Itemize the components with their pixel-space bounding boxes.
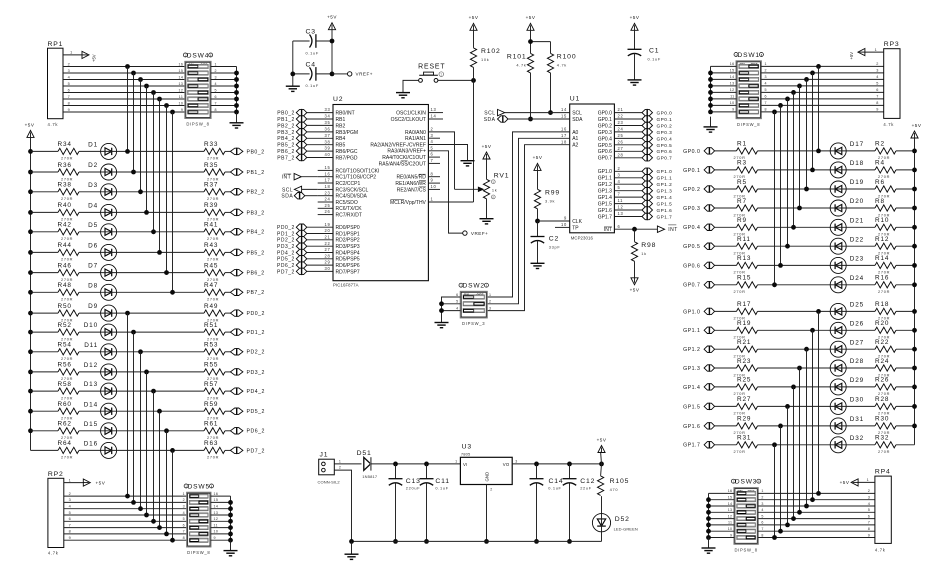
- svg-text:6: 6: [456, 293, 458, 297]
- svg-text:16: 16: [214, 492, 219, 496]
- svg-text:1: 1: [183, 492, 185, 496]
- U2 pin 18 RC3/SCK/SCL stub: [318, 184, 369, 193]
- svg-text:11: 11: [618, 198, 624, 203]
- svg-text:3: 3: [761, 502, 763, 506]
- wire R25 to D29: [758, 386, 831, 388]
- svg-text:7: 7: [761, 527, 763, 531]
- svg-text:PD5_2: PD5_2: [277, 257, 295, 263]
- wire PB4_2 to U2 pin 37: [307, 133, 333, 138]
- junction node top-right bus 7: [778, 103, 783, 108]
- junction C12 top: [567, 462, 572, 467]
- junction node GP0.5 bus: [785, 244, 790, 249]
- wire R64 to D16: [79, 449, 101, 451]
- svg-text:4: 4: [431, 139, 434, 144]
- svg-text:GP0.5: GP0.5: [683, 244, 700, 250]
- svg-text:PB4_2: PB4_2: [277, 136, 295, 142]
- svg-text:13: 13: [730, 82, 735, 86]
- wire D13 to R57: [117, 390, 204, 392]
- wire PB5_2 to U2 pin 38: [307, 139, 333, 144]
- svg-text:D15: D15: [84, 421, 98, 428]
- svg-text:R41: R41: [204, 222, 218, 229]
- svg-text:270R: 270R: [878, 449, 890, 454]
- junction +5V right rail at D28: [912, 366, 917, 371]
- wire R58 to D13: [79, 390, 101, 392]
- wire vertical bus left 1: [127, 67, 129, 152]
- svg-text:PD3_2: PD3_2: [277, 244, 295, 250]
- wire J1 pin 1 to D51: [334, 460, 361, 464]
- ground under C2: [531, 263, 545, 268]
- wire +5V rail to R64: [31, 449, 59, 451]
- power +5V above RV1: [482, 144, 492, 159]
- svg-text:3: 3: [431, 133, 434, 138]
- wire D3 to R37: [117, 191, 204, 193]
- wire D1 to R33: [117, 150, 204, 152]
- svg-text:8: 8: [69, 530, 72, 534]
- wire vertical bus lower-left 5: [153, 391, 155, 521]
- svg-text:D17: D17: [850, 141, 864, 148]
- svg-text:PB3_2: PB3_2: [247, 210, 265, 216]
- wire RP1 pin 3 to DSW4 pin 15: [63, 69, 185, 73]
- wire RP2 pin 8 to DSW5 pin 7: [64, 530, 187, 534]
- junction R100/SCL: [548, 110, 553, 115]
- junction DSW5 bus 1: [228, 500, 233, 505]
- svg-text:GP0.7: GP0.7: [683, 283, 700, 289]
- resistor R29 270R: [734, 416, 758, 436]
- wire DSW4 pin 2 to ground bus: [211, 69, 237, 73]
- junction DSW3 bus 2: [706, 504, 711, 509]
- svg-text:14: 14: [431, 114, 437, 119]
- svg-text:13: 13: [431, 107, 437, 112]
- svg-text:PD4_2: PD4_2: [277, 250, 295, 256]
- junction DSW3 bus 3: [706, 510, 711, 515]
- svg-text:23: 23: [618, 120, 624, 125]
- DSW2 right pin 3 number: [489, 306, 491, 310]
- wire R32 to +5V rail: [896, 444, 915, 446]
- svg-text:270R: 270R: [61, 257, 73, 262]
- svg-text:8: 8: [215, 108, 217, 112]
- wire terminal GP1.2 to R21: [715, 348, 737, 350]
- svg-text:8: 8: [761, 533, 763, 537]
- wire R9 to D21: [758, 226, 831, 228]
- wire R63 to terminal PD7_2: [225, 449, 230, 451]
- svg-text:R10: R10: [875, 217, 889, 224]
- svg-text:DSW1: DSW1: [737, 52, 759, 59]
- svg-text:GP1.4: GP1.4: [683, 385, 700, 391]
- resistor R49 270R: [204, 303, 225, 323]
- junction node GP0.0 bus: [816, 149, 821, 154]
- svg-text:10: 10: [431, 184, 437, 189]
- wire R2 to +5V rail: [896, 150, 915, 152]
- svg-text:PD6_2: PD6_2: [247, 429, 265, 435]
- svg-text:23: 23: [325, 190, 331, 195]
- junction +5V right rail at D22: [912, 244, 917, 249]
- U2 pin name RA2/AN2/VREF-/CVREF: [370, 142, 426, 148]
- U2 pin 10 RE2/AN7/CS stub: [397, 184, 440, 193]
- terminal GP0.5: [683, 243, 714, 251]
- svg-text:RD0/PSP0: RD0/PSP0: [336, 225, 360, 231]
- svg-text:18: 18: [325, 184, 331, 189]
- junction node PB5_2 bus: [157, 250, 162, 255]
- svg-text:D16: D16: [84, 441, 98, 448]
- U2 pin 5 number: [431, 145, 434, 150]
- junction node GP0.7 bus: [772, 282, 777, 287]
- U2 pin 15 RC0/T1OSO/T1CKI stub: [318, 165, 380, 174]
- svg-text:5: 5: [618, 185, 621, 190]
- junction DSW1 bus 1: [708, 71, 713, 76]
- junction node PD1_2 bus: [131, 330, 136, 335]
- svg-text:7: 7: [868, 521, 871, 525]
- svg-text:DIPSW_3: DIPSW_3: [462, 321, 485, 326]
- wire PB0_2 to U2 pin 33: [307, 107, 333, 112]
- svg-text:GP0.5: GP0.5: [657, 143, 673, 148]
- terminal GP0.4 at U1: [642, 135, 672, 142]
- svg-text:R6: R6: [875, 179, 885, 186]
- diode D51 1N5817: [357, 450, 378, 479]
- wire C3-C4 left vertical: [292, 41, 294, 86]
- svg-text:9: 9: [214, 536, 216, 540]
- wire D20 to R8: [846, 207, 875, 209]
- wire R5 to D19: [758, 188, 831, 190]
- svg-text:GP0.2: GP0.2: [657, 123, 673, 128]
- svg-text:8: 8: [431, 171, 434, 176]
- power +5V at RP3 pin 1: [849, 49, 865, 60]
- junction +5V rail at D10 row: [28, 330, 33, 335]
- svg-text:R3: R3: [737, 160, 747, 167]
- wire terminal GP1.5 to R27: [715, 405, 737, 407]
- terminal PB4_2 at U2: [277, 135, 307, 143]
- junction node PB4_2 bus: [151, 229, 156, 234]
- junction C11 top: [424, 462, 429, 467]
- resistor R22 270R: [875, 339, 896, 359]
- svg-text:26: 26: [618, 139, 624, 144]
- DSW4 left pin 14 number: [178, 75, 183, 79]
- DSW5 left pin 2 number: [183, 498, 185, 502]
- resistor R28 270R: [875, 396, 896, 416]
- wire R40 to D4: [79, 211, 101, 213]
- wire +5V rail to R62: [31, 430, 59, 432]
- wire +5V rail to R40: [31, 211, 59, 213]
- resistor R39 270R: [204, 202, 225, 222]
- junction node bottom-left bus 7: [164, 532, 169, 537]
- junction C4 right: [330, 72, 335, 77]
- svg-text:SCL: SCL: [282, 187, 293, 193]
- svg-text:7805: 7805: [461, 452, 471, 457]
- svg-text:R42: R42: [58, 222, 72, 229]
- svg-text:270R: 270R: [61, 356, 73, 361]
- svg-text:10: 10: [561, 222, 567, 227]
- junction node PD6_2 bus: [164, 428, 169, 433]
- wire R10 to +5V rail: [896, 226, 915, 228]
- terminal GP0.3: [683, 204, 714, 212]
- svg-text:A1: A1: [572, 136, 578, 142]
- svg-text:GP1.7: GP1.7: [657, 214, 673, 219]
- wire DSW3 pin 14 to ground bus: [709, 502, 735, 506]
- svg-text:VREF+: VREF+: [356, 72, 373, 77]
- wire DSW4 pin 8 to ground bus: [211, 108, 237, 112]
- wire +5V right rail: [914, 138, 916, 445]
- wire vertical bus right 4: [799, 86, 801, 208]
- U2 pin 16 RC1/T1OSI/CCP2 stub: [318, 171, 377, 180]
- LED D17: [830, 141, 864, 159]
- svg-text:PD0_2: PD0_2: [277, 225, 295, 231]
- wire U1 INT to terminal: [614, 224, 657, 229]
- ground at power supply: [345, 554, 359, 559]
- svg-text:D2: D2: [88, 162, 98, 169]
- U2 pin name RB7/PGD: [336, 155, 358, 161]
- junction +5V right rail at D19: [912, 187, 917, 192]
- DSW5 left pin 7 number: [183, 530, 185, 534]
- wire DSW1 pin 10 to ground bus: [711, 101, 737, 105]
- U1 pin GP1.4 name: [598, 195, 612, 201]
- wire terminal GP0.4 to R9: [715, 226, 737, 228]
- svg-text:OSC2/CLKOUT: OSC2/CLKOUT: [391, 117, 426, 123]
- wire vertical bus right 5: [793, 92, 795, 227]
- svg-text:D32: D32: [850, 435, 864, 442]
- svg-text:GP1.0: GP1.0: [657, 169, 673, 174]
- terminal GP0.2: [683, 185, 714, 193]
- wire R13 to D23: [758, 264, 831, 266]
- wire terminal GP1.6 to R29: [715, 425, 737, 427]
- svg-text:GP1.6: GP1.6: [598, 208, 612, 214]
- svg-text:A0: A0: [572, 130, 578, 136]
- junction +5V rail at D11 row: [28, 349, 33, 354]
- svg-text:270R: 270R: [61, 395, 73, 400]
- svg-text:PD7_2: PD7_2: [277, 269, 295, 275]
- resistor R37 270R: [204, 182, 225, 202]
- svg-text:RP4: RP4: [875, 469, 891, 476]
- wire DSW1 pin 11 to ground bus: [711, 95, 737, 99]
- terminal GP0.5 at U1: [642, 141, 672, 148]
- svg-text:R19: R19: [737, 320, 751, 327]
- svg-text:MCLR/Vpp/THV: MCLR/Vpp/THV: [390, 200, 427, 206]
- RP2 pin 1 wire to +5V: [64, 478, 84, 482]
- wire DSW3 pin 2 to RP4 pin 3: [758, 496, 875, 500]
- svg-text:15: 15: [561, 114, 567, 119]
- svg-text:U1: U1: [570, 95, 580, 102]
- svg-text:36: 36: [325, 127, 331, 132]
- svg-text:R5: R5: [737, 179, 747, 186]
- wire R60 to D14: [79, 410, 101, 412]
- wire +5V to C1: [634, 30, 636, 49]
- wire D52 to ground rail: [601, 532, 603, 542]
- ground under C3/C4: [286, 86, 300, 91]
- wire R28 to +5V rail: [896, 405, 915, 407]
- svg-text:PD5_2: PD5_2: [247, 409, 265, 415]
- LED D32: [830, 435, 864, 453]
- junction node top-left bus 3: [138, 77, 143, 82]
- wire D18 to R4: [846, 169, 875, 171]
- svg-text:R39: R39: [204, 202, 218, 209]
- wire vertical bus right 2: [812, 73, 814, 170]
- wire vertical bus left 3: [140, 80, 142, 192]
- svg-text:6: 6: [618, 224, 621, 229]
- svg-text:14: 14: [728, 502, 733, 506]
- junction DSW3 bus 6: [706, 529, 711, 534]
- wire RP2 pin 9 to DSW5 pin 8: [64, 536, 187, 540]
- svg-text:GP1.5: GP1.5: [657, 202, 673, 207]
- svg-text:C12: C12: [580, 478, 595, 485]
- wire R46 to D7: [79, 272, 101, 274]
- junction C13 bottom: [393, 539, 398, 544]
- svg-text:R100: R100: [557, 53, 577, 60]
- svg-text:5: 5: [765, 88, 767, 92]
- wire DSW2 left pins to ground: [442, 297, 461, 323]
- svg-text:GP1.7: GP1.7: [598, 214, 612, 220]
- svg-text:12: 12: [214, 517, 219, 521]
- junction node bottom-left bus 8: [170, 538, 175, 543]
- svg-text:6: 6: [431, 152, 434, 157]
- svg-text:RB3/PGM: RB3/PGM: [336, 130, 359, 136]
- terminal PD7_2 at U2: [277, 268, 307, 276]
- svg-text:3: 3: [183, 505, 185, 509]
- wire R24 to +5V rail: [896, 367, 915, 369]
- terminal GP1.2 at U1: [642, 181, 672, 188]
- connector J1 CONN-SIL2: [318, 452, 341, 485]
- svg-text:270R: 270R: [61, 236, 73, 241]
- wire R31 to D32: [758, 444, 831, 446]
- wire D27 to R22: [846, 348, 875, 350]
- svg-text:DIPSW_8: DIPSW_8: [187, 550, 210, 555]
- DIP switch DSW1: [734, 52, 763, 127]
- junction node PB7_2 bus: [170, 290, 175, 295]
- junction node top-right bus 4: [797, 84, 802, 89]
- svg-text:34: 34: [325, 114, 331, 119]
- wire DSW3 pin 1 to RP4 pin 2: [758, 489, 875, 493]
- resistor R57 270R: [204, 381, 225, 401]
- wire DSW3 pin 12 to ground bus: [709, 514, 735, 518]
- power +5V right rail arrow: [911, 123, 922, 138]
- wire D19 to R6: [846, 188, 875, 190]
- wire R29 to D31: [758, 425, 831, 427]
- svg-text:1: 1: [431, 197, 434, 202]
- svg-text:VO: VO: [503, 462, 510, 467]
- svg-text:12: 12: [618, 205, 624, 210]
- svg-text:SCL: SCL: [572, 111, 582, 117]
- wire R37 to terminal PB2_2: [225, 191, 230, 193]
- terminal PD5_2: [230, 408, 264, 416]
- svg-text:5: 5: [876, 82, 879, 86]
- junction DSW5 bus 4: [228, 519, 233, 524]
- svg-text:R34: R34: [58, 141, 72, 148]
- U2 pin 14 OSC2/CLKOUT stub: [391, 114, 443, 123]
- wire RESET left to ground: [403, 80, 419, 92]
- RP3 pin 1 wire to +5V: [864, 48, 884, 52]
- svg-text:9: 9: [564, 216, 567, 221]
- U2 pin 3 stub: [428, 137, 440, 139]
- junction DSW1 bus 3: [708, 84, 713, 89]
- wire J1 pin 2 to ground rail: [334, 466, 351, 542]
- svg-text:R21: R21: [737, 339, 751, 346]
- wire R15 to D24: [758, 284, 831, 286]
- svg-text:PD0_2: PD0_2: [247, 311, 265, 317]
- LED D29: [830, 377, 864, 395]
- terminal GP1.4: [683, 383, 714, 391]
- wire DSW1 pin 12 to ground bus: [711, 88, 737, 92]
- svg-text:R57: R57: [204, 381, 218, 388]
- resistor R61 270R: [204, 421, 225, 441]
- svg-text:RA3/AN3/VREF+: RA3/AN3/VREF+: [387, 149, 426, 155]
- U1 INT pin name: [604, 227, 612, 233]
- LED D26: [830, 320, 864, 338]
- wire +5V rail to R56: [31, 371, 59, 373]
- junction node GP0.6 bus: [778, 263, 783, 268]
- wire PB7_2 to U2 pin 40: [307, 152, 333, 157]
- terminal PB7_2: [230, 289, 264, 297]
- wire +5V rail to R50: [31, 312, 59, 314]
- svg-text:19: 19: [325, 222, 331, 227]
- U2 pin name RA5/AN4/SS/C2OUT: [379, 161, 426, 167]
- junction node PD2_2 bus: [138, 349, 143, 354]
- wire R48 to D8: [79, 291, 101, 293]
- svg-text:270R: 270R: [207, 236, 219, 241]
- wire D32 to R32: [846, 444, 875, 446]
- wire U1 A1 to DSW2 pin 2: [487, 133, 579, 304]
- U2 pin name RD1/PSP1: [336, 231, 360, 237]
- wire U3 VO to +5V node: [512, 463, 601, 465]
- wire DSW3 pin 4 to RP4 pin 5: [758, 508, 875, 512]
- svg-text:2: 2: [876, 62, 879, 66]
- wire R55 to terminal PD3_2: [225, 371, 230, 373]
- svg-text:7: 7: [765, 101, 767, 105]
- svg-text:INT: INT: [282, 175, 292, 181]
- U2 pin name RA3/AN3/VREF+: [387, 149, 426, 155]
- wire D21 to R10: [846, 226, 875, 228]
- svg-text:CLK: CLK: [572, 219, 582, 225]
- svg-text:R35: R35: [204, 162, 218, 169]
- resistor R53 270R: [204, 342, 225, 362]
- svg-text:GP1.2: GP1.2: [657, 182, 673, 187]
- U1 pin GP0.0 name: [598, 111, 612, 117]
- wire U1 pin 13 to terminal GP1.7: [614, 211, 642, 216]
- svg-text:R30: R30: [875, 416, 889, 423]
- junction node bottom-left bus 5: [151, 519, 156, 524]
- wire DSW3 pin 5 to RP4 pin 6: [758, 514, 875, 518]
- DSW2 right pin 2 number: [489, 300, 491, 304]
- wire R59 to terminal PD5_2: [225, 410, 230, 412]
- junction DSW3 bus 7: [706, 535, 711, 540]
- svg-text:270R: 270R: [878, 289, 890, 294]
- DSW2 left pin 6 number: [456, 293, 458, 297]
- svg-text:1k: 1k: [492, 187, 498, 192]
- U2 pin 9 RE1/AN6/WR stub: [395, 178, 440, 187]
- svg-text:D13: D13: [84, 381, 98, 388]
- wire +5V rail to R52: [31, 331, 59, 333]
- wire R53 to terminal PD2_2: [225, 351, 230, 353]
- svg-text:1: 1: [761, 489, 763, 493]
- resistor R64 270R: [58, 440, 80, 460]
- wire terminal GP0.3 to R7: [715, 207, 737, 209]
- wire RESET right to MCLR net: [438, 79, 474, 81]
- ground at RESET: [396, 93, 410, 98]
- wire +5V rail to R58: [31, 390, 59, 392]
- svg-text:RP2: RP2: [48, 471, 64, 478]
- junction node PD4_2 bus: [151, 389, 156, 394]
- svg-text:270R: 270R: [207, 455, 219, 460]
- U2 RA5 SS overline: [401, 160, 408, 162]
- wire RP1 pin 8 to DSW4 pin 10: [63, 101, 185, 105]
- wire U1 pin 25 to terminal GP0.4: [614, 133, 642, 138]
- wire D23 to R14: [846, 264, 875, 266]
- svg-text:11: 11: [728, 521, 732, 525]
- terminal GP0.2 at U1: [642, 122, 672, 129]
- wire DSW4 pin 6 to ground bus: [211, 95, 237, 99]
- resistor R98 1k: [631, 229, 656, 261]
- svg-text:5: 5: [215, 88, 217, 92]
- svg-text:22uF: 22uF: [580, 486, 592, 491]
- wire DSW1 pin 7 to RP3 pin 8: [761, 101, 884, 105]
- wire D6 to R43: [117, 251, 204, 253]
- svg-text:PB7_2: PB7_2: [277, 155, 295, 161]
